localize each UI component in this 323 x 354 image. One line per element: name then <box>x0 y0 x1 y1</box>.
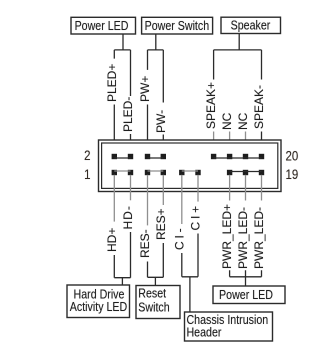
svg-text:RES+: RES+ <box>154 208 168 240</box>
wire NC to pin 14 <box>229 132 231 156</box>
wire PLED+ to pin 2 <box>113 105 115 156</box>
connector inner body <box>102 143 278 188</box>
box Chassis Intrusion Header <box>185 312 273 341</box>
wire PW- to pin 8 <box>162 135 164 156</box>
wire bracket Hard Drive Activity LED <box>114 232 130 285</box>
wire PLED- to pin 4 <box>130 134 132 155</box>
svg-text:PWR_LED-: PWR_LED- <box>252 207 266 269</box>
svg-text:Power LED: Power LED <box>219 287 273 302</box>
box Hard Drive Activity LED <box>67 285 130 318</box>
svg-text:SPEAK+: SPEAK+ <box>204 82 218 129</box>
svg-text:RES-: RES- <box>138 229 152 258</box>
wire pin 7 down (RES+) <box>162 175 164 205</box>
svg-text:Speaker: Speaker <box>231 18 271 33</box>
svg-text:20: 20 <box>286 149 299 164</box>
wire pin 1 down (HD+) <box>113 175 115 222</box>
wire PW+ to pin 6 <box>147 105 149 156</box>
box Power Switch <box>142 17 213 34</box>
wire NC to pin 16 <box>245 132 247 156</box>
svg-text:PW-: PW- <box>154 110 168 133</box>
svg-text:NC: NC <box>220 112 234 130</box>
wire bracket Power Switch <box>148 34 164 103</box>
bottom row pins (row 1) <box>112 170 265 175</box>
top pin links <box>114 157 261 159</box>
wire SPEAK+ to pin 12 <box>213 132 215 156</box>
wire bracket Chassis Intrusion <box>182 234 198 313</box>
connector outer body <box>99 140 282 192</box>
wire pin 15 down (PWR_LED+) <box>229 175 231 201</box>
svg-text:PWR_LED-: PWR_LED- <box>236 207 250 269</box>
svg-text:Header: Header <box>187 325 222 340</box>
svg-text:SPEAK-: SPEAK- <box>252 85 266 129</box>
wire pin 17 down (PWR_LED-) <box>245 175 247 201</box>
svg-text:1: 1 <box>84 167 90 182</box>
svg-text:PW+: PW+ <box>138 76 152 102</box>
wire pin 3 down (HD-) <box>130 175 132 201</box>
box Speaker <box>221 17 281 33</box>
svg-text:PLED+: PLED+ <box>105 64 119 102</box>
wire bracket Power LED <box>114 34 130 96</box>
svg-text:PLED-: PLED- <box>121 97 135 132</box>
wire pin 9 down (CI-) <box>181 175 183 224</box>
svg-text:CI-: CI- <box>172 226 186 250</box>
wire SPEAK- to pin 20 <box>261 132 263 156</box>
bottom pin links <box>114 170 198 172</box>
wire pin 11 down (CI+) <box>197 175 199 202</box>
svg-text:2: 2 <box>84 148 90 163</box>
top row pins (row 2) <box>112 154 265 159</box>
wire bracket Speaker <box>214 34 262 80</box>
svg-text:PWR_LED+: PWR_LED+ <box>220 204 234 269</box>
svg-text:Reset: Reset <box>138 285 166 300</box>
svg-text:Activity LED: Activity LED <box>70 299 127 314</box>
wire pin 5 down (RES-) <box>147 175 149 226</box>
svg-text:HD+: HD+ <box>105 228 119 252</box>
svg-text:Switch: Switch <box>138 299 169 314</box>
box Reset Switch <box>136 285 180 318</box>
svg-text:CI+: CI+ <box>189 203 203 230</box>
svg-text:NC: NC <box>236 112 250 130</box>
svg-text:19: 19 <box>286 167 299 182</box>
box Power LED bottom <box>213 286 285 304</box>
svg-text:Power LED: Power LED <box>75 18 129 33</box>
wire bracket Reset Switch <box>148 243 164 286</box>
wire bracket Power LED bottom <box>230 270 262 286</box>
box Power LED <box>71 17 136 34</box>
wire pin 19 down (PWR_LED-) <box>261 175 263 201</box>
svg-text:HD-: HD- <box>121 205 135 229</box>
svg-text:Power Switch: Power Switch <box>145 18 210 33</box>
